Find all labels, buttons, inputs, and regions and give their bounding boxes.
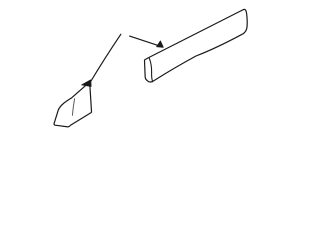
long strip outline <box>145 9 248 82</box>
long strip end-face contour <box>149 58 153 82</box>
small piece contour divider <box>72 99 74 116</box>
parts diagram: two molding strips with leader arrows <box>0 0 300 136</box>
small molding piece outline <box>54 85 92 127</box>
right leader line <box>130 36 158 45</box>
left leader line <box>91 34 121 81</box>
left leader arrowhead <box>82 80 91 87</box>
right leader arrowhead <box>157 41 164 47</box>
